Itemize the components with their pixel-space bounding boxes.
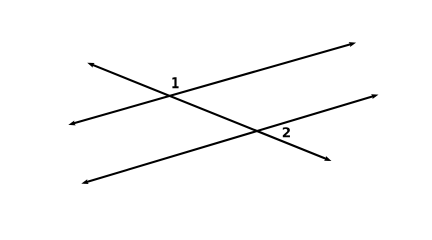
angle label 1 (at intersection of line m and transversal) [172,77,178,88]
arrowhead transversal lower-right end [324,156,331,161]
line m (top parallel line) [71,43,353,124]
arrowhead transversal upper-left end [87,63,94,68]
line n (bottom parallel line) [84,96,375,183]
arrowhead line m right end [349,42,356,47]
transversal line t [90,64,329,160]
arrowhead line n right end [371,94,378,99]
arrowhead line n left end [81,179,88,184]
angle label 2 (at intersection of line n and transversal) [283,127,290,137]
arrowhead line m left end [68,121,75,126]
